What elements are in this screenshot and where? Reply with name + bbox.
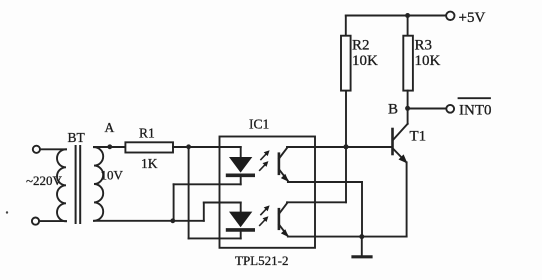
PT1 collector diagonal	[279, 147, 288, 158]
svg-text:INT0: INT0	[459, 103, 492, 119]
PT2 emitter diagonal	[279, 225, 288, 236]
terminal INT0	[446, 105, 454, 113]
wire R2 top stub	[345, 16, 347, 36]
PT1 emitter arrowhead	[281, 174, 289, 182]
wire secondary top to R1	[94, 146, 125, 148]
light arrows channel 2	[260, 205, 270, 225]
svg-text:TPL521-2: TPL521-2	[235, 253, 288, 268]
wire node down to LED2 cathode return	[188, 147, 190, 239]
transformer BT secondary winding	[94, 147, 103, 221]
node right of R1	[186, 144, 191, 149]
svg-text:R3: R3	[415, 38, 433, 54]
wire PT2 collector up to R2 node	[345, 91, 347, 203]
scan speck	[6, 211, 8, 213]
IC1 box	[220, 137, 316, 248]
LED2 anode stem	[240, 203, 242, 212]
T1 emitter arrowhead	[399, 154, 408, 163]
svg-text:R1: R1	[139, 126, 155, 141]
wire LED2 cathode return	[189, 237, 241, 239]
wire R3 bottom to node B	[407, 91, 409, 109]
resistor R2	[341, 36, 351, 91]
wire B to INT0	[408, 108, 447, 110]
PT2 collector diagonal	[279, 203, 288, 214]
light arrows channel 1	[260, 150, 270, 170]
LED D1	[229, 157, 252, 173]
T1 base bar	[391, 129, 394, 154]
svg-text:B: B	[388, 102, 398, 118]
INT0 overline	[459, 97, 491, 99]
wire primary top	[40, 148, 66, 150]
svg-text:+5V: +5V	[459, 10, 486, 26]
terminal lower-left	[32, 218, 39, 225]
terminal upper-left	[33, 146, 40, 153]
ground junction dot	[359, 234, 364, 239]
svg-text:T1: T1	[410, 129, 427, 145]
wire LED1 cathode vertical	[173, 184, 175, 221]
wire LED2 anode entry	[204, 202, 241, 204]
wire secondary bottom	[94, 220, 204, 222]
wire PT1 emitter out	[288, 181, 362, 183]
wire top rail	[346, 15, 446, 17]
wire LED2 anode vertical	[203, 203, 205, 221]
T1 emitter diagonal	[393, 149, 406, 163]
transformer BT primary winding	[57, 149, 66, 221]
junction R2/base	[344, 144, 349, 149]
svg-text:~220V: ~220V	[26, 173, 63, 188]
svg-text:10V: 10V	[101, 168, 124, 183]
wire R3 top stub	[407, 16, 409, 36]
wire primary bottom	[39, 220, 66, 222]
junction dot bottom-left	[170, 218, 175, 223]
wire T1 emitter down	[406, 162, 408, 236]
LED D2	[229, 212, 252, 228]
LED2 cathode stem	[240, 231, 242, 239]
wire PT1 collector to T1 base	[287, 146, 393, 148]
PT1 emitter diagonal	[279, 169, 288, 180]
terminal +5V	[446, 12, 454, 20]
phototransistor PT2 base bar	[278, 209, 281, 229]
resistor R1	[125, 142, 173, 152]
LED1 anode stem	[240, 147, 242, 157]
svg-text:10K: 10K	[352, 53, 378, 69]
node A	[107, 144, 112, 149]
wire R1 right to LED1 anode	[173, 146, 241, 148]
transformer core	[75, 146, 77, 223]
wire PT1 emitter down to ground rail	[361, 182, 363, 237]
transistor T1 collector vertical	[407, 109, 409, 124]
svg-text:10K: 10K	[415, 53, 441, 69]
svg-text:1K: 1K	[141, 156, 158, 171]
T1 collector diagonal	[393, 124, 408, 140]
ground	[361, 237, 363, 257]
junction top rail	[405, 13, 410, 18]
node B dot	[405, 106, 410, 111]
svg-text:A: A	[105, 120, 115, 135]
svg-text:BT: BT	[68, 130, 86, 145]
resistor R3	[403, 36, 413, 91]
phototransistor PT1 base bar	[278, 154, 281, 174]
wire PT2 emitter to ground rail	[288, 236, 407, 238]
wire PT2 collector out	[287, 201, 346, 203]
PT2 emitter arrowhead	[281, 229, 289, 237]
svg-text:IC1: IC1	[249, 117, 269, 132]
wire LED1 cathode return	[174, 183, 241, 185]
svg-text:R2: R2	[352, 38, 370, 54]
LED1 cathode stem	[240, 176, 242, 184]
